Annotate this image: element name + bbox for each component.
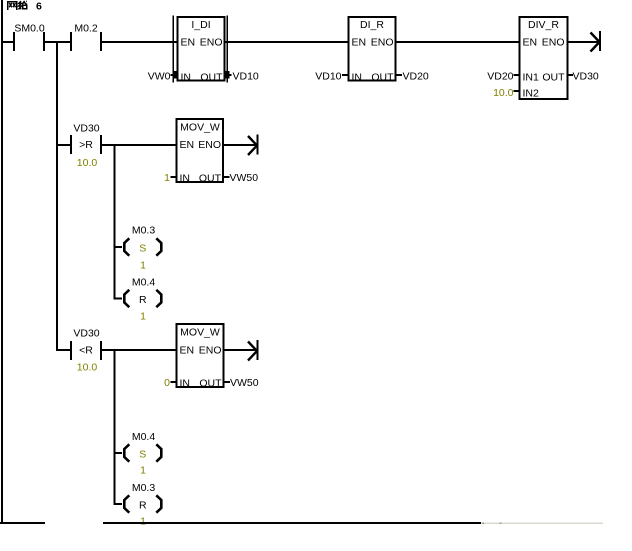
function block I_DI [173,16,229,84]
left power rail [1,0,3,524]
pin stub 1 to IN [171,176,177,178]
wire DIV_R ENO to arrow [569,41,600,43]
wire SM0.0 to M0.2 [45,41,70,43]
svg-text:R: R [139,500,147,512]
pin stub VW0 to IN [171,74,178,76]
coil R M0.3 [114,482,162,528]
contact M0.2 [70,23,102,52]
function block DIV_R [520,17,568,100]
svg-text:1: 1 [164,172,170,184]
pin plug OUT right [226,71,230,79]
svg-text:0: 0 [164,377,170,389]
svg-text:M0.3: M0.3 [132,225,156,237]
coil S M0.4 [115,431,161,477]
bottom wire segment main [103,522,481,524]
svg-text:OUT: OUT [199,173,222,185]
bottom wire segment left [0,522,45,524]
svg-text:IN1: IN1 [523,72,540,84]
svg-text:DI_R: DI_R [360,19,384,31]
svg-text:OUT: OUT [371,72,394,84]
svg-text:M0.4: M0.4 [132,277,156,289]
function block DI_R [349,17,396,84]
pin stub OUT to VW50 [224,176,230,178]
svg-text:<R: <R [79,345,93,357]
svg-text:1: 1 [140,465,146,477]
wire ENO to arrow rung3 [225,349,257,351]
open rung arrow rung3 [248,340,259,361]
svg-text:VD30: VD30 [73,328,99,340]
svg-text:VW50: VW50 [230,377,259,389]
svg-text:OUT: OUT [199,378,222,390]
comparison contact VD30 <R 10.0 [70,328,102,374]
svg-text:EN: EN [181,37,196,49]
svg-text:1: 1 [140,260,146,272]
bottom faint wire segment [481,523,603,525]
pin stub VD10 to IN [342,74,348,76]
svg-text:6: 6 [36,1,42,13]
open rung arrow rung1 [591,31,602,52]
svg-text:MOV_W: MOV_W [180,122,220,134]
coil S M0.3 [115,225,161,272]
svg-text:ENO: ENO [200,37,223,49]
function block MOV_W rung3 [177,324,224,390]
wire rail to SM0.0 [3,41,13,43]
pin stub OUT to VD20 [397,74,403,76]
wire branch corner to contact VD30 <R [56,349,70,351]
svg-text:IN: IN [180,378,191,390]
sub-branch vertical rung3 [114,349,116,505]
svg-text:VD20: VD20 [403,71,429,83]
pin stub OUT to VD30 [569,74,574,76]
svg-text:VD30: VD30 [573,71,599,83]
pin stub VD20 to IN1 [514,74,519,76]
sub-branch vertical rung2 [114,144,116,300]
svg-text:10.0: 10.0 [77,362,98,374]
svg-text:OUT: OUT [542,72,565,84]
svg-text:VD10: VD10 [233,71,259,83]
svg-text:ENO: ENO [199,345,222,357]
coil R M0.4 [114,277,162,323]
svg-text:VW50: VW50 [230,172,259,184]
comparison contact VD30 >R 10.0 [70,123,102,170]
svg-text:1: 1 [140,516,146,528]
pin stub 0 to IN [171,381,177,383]
svg-text:ENO: ENO [542,37,565,49]
pin stub 10.0 to IN2 [514,90,519,92]
wire contact to MOV_W rung2 [102,144,176,146]
wire branch to contact VD30 >R [58,144,70,146]
svg-text:VW0: VW0 [148,71,171,83]
svg-text:10.0: 10.0 [77,157,98,169]
svg-text:VD30: VD30 [73,123,99,135]
contact SM0.0 [13,23,45,52]
svg-text:ENO: ENO [198,139,221,151]
svg-text:DIV_R: DIV_R [528,19,559,31]
wire M0.2 to I_DI box [102,41,177,43]
svg-text:VD10: VD10 [315,71,341,83]
function block MOV_W rung2 [177,119,224,185]
wire DI_R ENO to DIV_R EN [397,41,519,43]
svg-text:EN: EN [180,345,195,357]
svg-text:SM0.0: SM0.0 [14,23,45,35]
svg-text:M0.2: M0.2 [74,23,98,35]
svg-text:I_DI: I_DI [191,19,210,31]
svg-text:M0.3: M0.3 [132,482,156,494]
svg-text:1: 1 [140,311,146,323]
svg-text:EN: EN [352,37,367,49]
branch vertical rung1 to rung3 [56,41,58,351]
svg-text:VD20: VD20 [487,71,513,83]
svg-text:M0.4: M0.4 [132,431,156,443]
network title 网络 6 [7,1,42,13]
bottom faint wire dot 1 [482,523,484,525]
svg-text:ENO: ENO [371,37,394,49]
svg-text:IN: IN [352,72,363,84]
svg-text:10.0: 10.0 [493,87,514,99]
pin stub OUT to VW50 [224,381,230,383]
svg-text:IN: IN [181,72,192,84]
svg-text:S: S [139,243,146,255]
svg-text:OUT: OUT [200,72,223,84]
pin plug IN left [173,71,177,79]
open rung arrow rung2 [248,135,259,156]
svg-text:IN2: IN2 [523,88,540,100]
svg-text:MOV_W: MOV_W [180,327,220,339]
svg-text:R: R [139,294,147,306]
wire contact to MOV_W rung3 [102,349,176,351]
svg-text:IN: IN [180,173,191,185]
svg-text:EN: EN [180,139,195,151]
svg-text:EN: EN [523,37,538,49]
wire I_DI ENO to DI_R EN [225,41,348,43]
svg-text:>R: >R [79,139,93,151]
wire ENO to arrow rung2 [224,144,257,146]
svg-text:S: S [139,449,146,461]
bottom faint wire dot 2 [500,523,502,525]
pin stub OUT to VD10 [225,74,232,76]
